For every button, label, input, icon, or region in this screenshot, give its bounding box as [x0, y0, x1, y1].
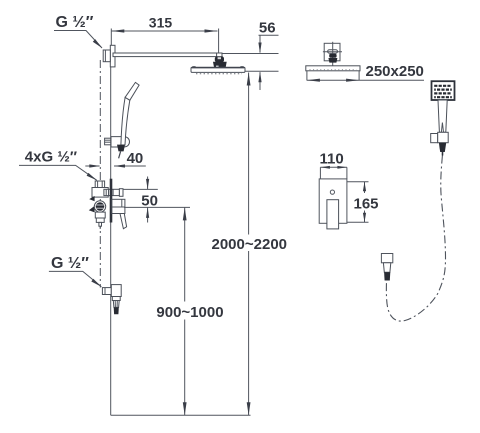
dim 40 right arrow [114, 165, 146, 167]
mixer trim plate [319, 179, 347, 223]
dim 165 ext bottom [347, 221, 369, 223]
svg-text:315: 315 [149, 14, 173, 30]
hand shower head (right) [432, 81, 455, 100]
dim 50 ext bottom [124, 206, 190, 208]
trim plate edge-on [110, 179, 113, 223]
rain head slab (right) [306, 66, 360, 71]
dim 56 ext top [222, 53, 279, 55]
dim 315 ext right [218, 29, 220, 54]
mixer outlet pipe [104, 189, 120, 195]
leader 4xG [19, 165, 97, 180]
svg-text:50: 50 [141, 193, 158, 210]
arm end connector [217, 53, 222, 60]
svg-text:G ½″: G ½″ [51, 255, 89, 272]
outlet elbow body [111, 285, 121, 297]
hand shower head (on column) [125, 82, 139, 100]
wall centerline [99, 60, 101, 288]
outlet lower box [112, 297, 120, 301]
mixer body [92, 188, 108, 198]
holder capsule [111, 137, 130, 147]
dim 110 line [320, 166, 347, 168]
dim 315 ext left [110, 29, 112, 46]
hand shower nut [439, 143, 446, 152]
dim 56 top arrow [259, 35, 261, 52]
dim 56 ext bottom [246, 70, 279, 72]
svg-text:2000~2200: 2000~2200 [212, 236, 288, 253]
dim 50 bottom arrow [147, 207, 149, 222]
shower arm [113, 53, 222, 57]
trim pilot hole [330, 190, 334, 194]
svg-text:4xG ½″: 4xG ½″ [25, 148, 77, 165]
head end tabs [192, 66, 195, 67]
rain shower head (side view) [191, 67, 245, 72]
hose outlet square [381, 254, 392, 263]
riser pipe line [110, 59, 112, 415]
dim 250x250 ext left [306, 71, 308, 81]
mixer handle [120, 214, 127, 229]
mount capsule [328, 50, 338, 54]
holder left box [431, 134, 438, 143]
holder bracket [105, 138, 111, 145]
hand shower handle (on column) [121, 97, 130, 145]
hand shower handle (right) [438, 100, 447, 132]
hose outlet taper [383, 263, 390, 272]
dim 40 left arrow [85, 165, 99, 167]
handle inner blade [441, 123, 443, 133]
svg-text:900~1000: 900~1000 [156, 304, 223, 321]
bottom baseline [111, 414, 251, 416]
mixer knob [94, 201, 105, 212]
dim 50 top arrow [147, 177, 149, 190]
dim 2000~2200 line [248, 73, 250, 235]
mount base [328, 58, 337, 63]
outlet elbow nut [102, 288, 111, 295]
mount centerline vertical [332, 42, 334, 66]
hose (dash-dot) [386, 156, 445, 322]
dim 165 line [364, 182, 366, 193]
nozzle dots [196, 73, 242, 75]
dim 110 ext right [346, 167, 348, 179]
cone tail [119, 151, 121, 158]
mixer bottom nut [95, 212, 105, 218]
head mount [213, 62, 227, 68]
hose outlet nut [384, 272, 390, 280]
dim 56 landing line [259, 34, 279, 36]
mixer top nut [95, 181, 104, 188]
mount centerline horizontal [323, 51, 342, 53]
dim 900~1000 line [184, 207, 186, 301]
dim 110 ext left [319, 167, 321, 179]
svg-text:G ½″: G ½″ [56, 14, 94, 31]
svg-text:40: 40 [127, 150, 144, 167]
holder cone [117, 145, 125, 152]
leader G 1/2 bottom [49, 271, 102, 286]
mixer left wing bottom [89, 206, 95, 213]
pipe end cap [119, 189, 123, 197]
svg-text:56: 56 [259, 20, 276, 37]
leader G 1/2 top [54, 31, 102, 49]
holder main box [438, 132, 449, 142]
mount ball [329, 54, 336, 58]
dim 165 ext top [347, 181, 369, 183]
dim 50 ext top [123, 188, 158, 190]
outlet hose end [114, 307, 119, 314]
dim 315 line [111, 30, 217, 32]
svg-text:250x250: 250x250 [366, 63, 424, 80]
wall supply flange [110, 45, 115, 67]
ceiling mount square (right shower) [324, 43, 340, 61]
svg-text:165: 165 [354, 196, 379, 213]
mixer right body [112, 199, 125, 213]
trim handle [327, 200, 339, 229]
dim 56 bottom arrow [259, 72, 261, 90]
mixer left wing top [89, 196, 94, 201]
outlet cone [113, 301, 119, 308]
dim 250x250 ext right [358, 71, 360, 81]
flange nut [103, 50, 110, 62]
svg-text:110: 110 [320, 150, 344, 167]
dim 250x250 line [307, 79, 424, 81]
ball joint [215, 56, 224, 62]
